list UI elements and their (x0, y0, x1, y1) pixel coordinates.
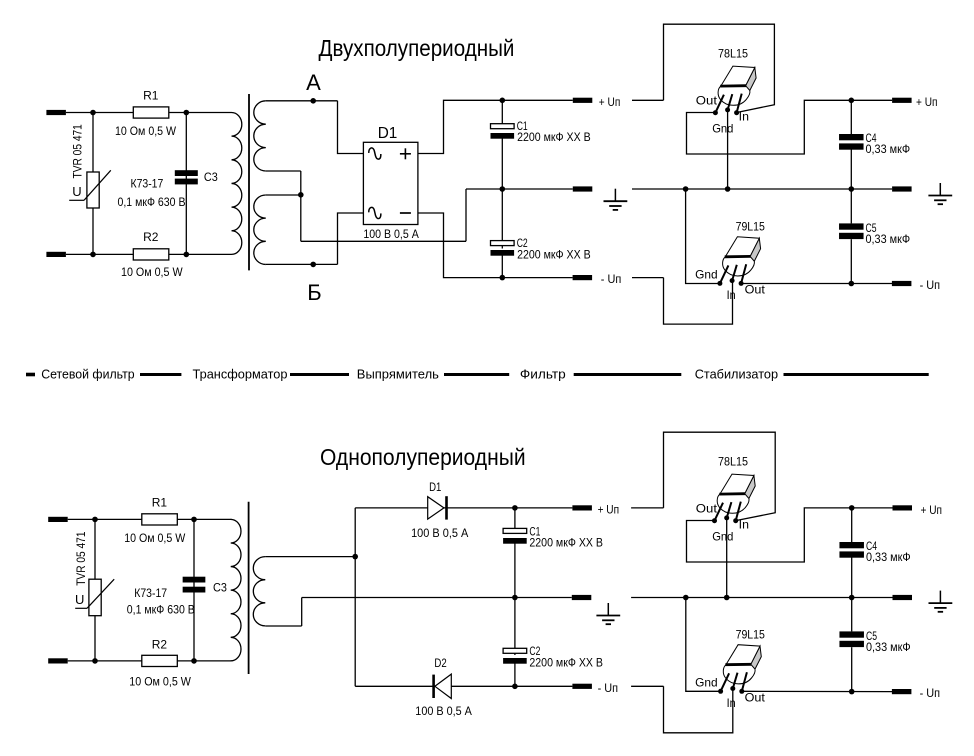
svg-text:0,1 мкФ 630 В: 0,1 мкФ 630 В (127, 604, 195, 616)
svg-text:C3: C3 (213, 581, 227, 595)
svg-text:In: In (739, 110, 749, 124)
svg-text:+ Uп: + Uп (598, 505, 620, 517)
svg-text:D1: D1 (429, 480, 441, 494)
svg-text:2200 мкФ XX В: 2200 мкФ XX В (529, 658, 603, 670)
svg-text:Out: Out (745, 690, 766, 704)
svg-text:D1: D1 (378, 125, 398, 142)
svg-text:2200 мкФ XX В: 2200 мкФ XX В (529, 538, 603, 550)
svg-text:Gnd: Gnd (695, 676, 718, 690)
svg-text:C5: C5 (866, 629, 877, 643)
svg-text:Стабилизатор: Стабилизатор (695, 367, 778, 382)
svg-text:R1: R1 (143, 89, 159, 103)
svg-text:78L15: 78L15 (718, 455, 748, 469)
svg-text:0,1 мкФ 630 В: 0,1 мкФ 630 В (118, 197, 186, 209)
svg-text:Однополупериодный: Однополупериодный (320, 444, 526, 470)
svg-text:C2: C2 (517, 236, 528, 250)
svg-text:100 В 0,5 А: 100 В 0,5 А (411, 528, 469, 540)
svg-text:- Uп: - Uп (920, 280, 941, 292)
svg-text:R1: R1 (152, 495, 168, 509)
svg-text:C1: C1 (529, 525, 540, 539)
svg-text:Трансформатор: Трансформатор (193, 367, 288, 382)
svg-text:U: U (75, 592, 84, 607)
svg-text:- Uп: - Uп (598, 683, 619, 695)
svg-text:10 Ом 0,5 W: 10 Ом 0,5 W (115, 126, 176, 138)
svg-text:C3: C3 (204, 170, 218, 184)
svg-text:D2: D2 (434, 656, 447, 670)
svg-text:78L15: 78L15 (718, 47, 748, 61)
svg-text:10 Ом 0,5 W: 10 Ом 0,5 W (121, 267, 183, 279)
svg-text:К73-17: К73-17 (131, 178, 164, 190)
svg-text:2200 мкФ XX В: 2200 мкФ XX В (517, 132, 591, 144)
svg-text:Gnd: Gnd (712, 121, 733, 135)
svg-text:In: In (739, 518, 749, 532)
svg-text:А: А (306, 70, 321, 95)
svg-text:TVR 05 471: TVR 05 471 (73, 124, 85, 178)
svg-text:+ Uп: + Uп (599, 97, 621, 109)
svg-text:+ Uп: + Uп (916, 97, 938, 109)
svg-text:C5: C5 (866, 221, 877, 235)
svg-text:C2: C2 (529, 644, 540, 658)
svg-text:Сетевой фильтр: Сетевой фильтр (41, 367, 134, 382)
svg-text:2200 мкФ XX В: 2200 мкФ XX В (517, 250, 591, 262)
svg-text:10 Ом 0,5 W: 10 Ом 0,5 W (129, 676, 191, 688)
svg-text:0,33 мкФ: 0,33 мкФ (866, 552, 911, 564)
svg-text:0,33 мкФ: 0,33 мкФ (866, 234, 911, 246)
svg-text:R2: R2 (143, 230, 159, 244)
svg-text:- Uп: - Uп (920, 688, 941, 700)
svg-text:0,33 мкФ: 0,33 мкФ (866, 642, 911, 654)
svg-text:TVR 05 471: TVR 05 471 (76, 532, 88, 586)
svg-text:C1: C1 (517, 119, 528, 133)
svg-text:In: In (727, 288, 736, 302)
svg-text:79L15: 79L15 (736, 628, 766, 642)
svg-text:Out: Out (696, 94, 718, 108)
svg-text:К73-17: К73-17 (134, 588, 167, 600)
svg-text:79L15: 79L15 (736, 220, 766, 234)
svg-text:Двухполупериодный: Двухполупериодный (319, 35, 515, 61)
svg-text:+ Uп: + Uп (921, 505, 943, 517)
svg-text:Out: Out (745, 282, 766, 296)
svg-text:10 Ом 0,5 W: 10 Ом 0,5 W (124, 533, 185, 545)
svg-text:0,33 мкФ: 0,33 мкФ (866, 144, 911, 156)
svg-text:In: In (727, 696, 736, 710)
svg-text:Фильтр: Фильтр (520, 367, 566, 382)
svg-text:Gnd: Gnd (712, 529, 733, 543)
svg-text:Б: Б (307, 280, 321, 305)
svg-text:100 В 0,5 А: 100 В 0,5 А (363, 229, 419, 241)
svg-text:Out: Out (696, 502, 718, 516)
svg-text:Выпрямитель: Выпрямитель (357, 367, 439, 382)
svg-text:U: U (72, 184, 81, 199)
svg-text:Gnd: Gnd (695, 268, 718, 282)
svg-text:R2: R2 (152, 637, 168, 651)
svg-text:100 В 0,5 А: 100 В 0,5 А (415, 706, 472, 718)
svg-text:- Uп: - Uп (601, 274, 622, 286)
